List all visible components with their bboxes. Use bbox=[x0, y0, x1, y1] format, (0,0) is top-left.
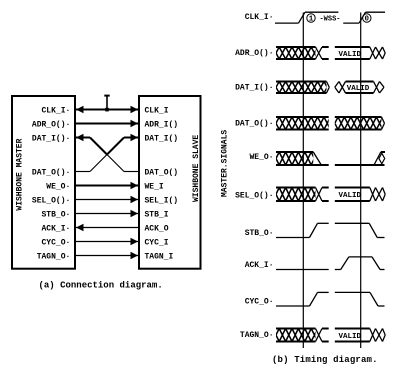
svg-text:ACK_I·: ACK_I· bbox=[41, 224, 70, 233]
wire thin half from master DAT_O stub bbox=[90, 155, 107, 172]
svg-text:DAT_O()·: DAT_O()· bbox=[32, 168, 70, 177]
wire slave DAT_O -> master DAT_I (thick with arrow) bbox=[76, 137, 90, 139]
svg-text:VALID: VALID bbox=[347, 85, 370, 93]
svg-text:SEL_I(): SEL_I() bbox=[145, 196, 179, 205]
svg-text:-WSS-: -WSS- bbox=[319, 15, 340, 23]
svg-text:ADR_O()·: ADR_O()· bbox=[32, 120, 70, 129]
svg-text:WISHBONE MASTER: WISHBONE MASTER bbox=[16, 138, 25, 210]
svg-text:ACK_I·: ACK_I· bbox=[245, 261, 274, 270]
wire WE_O -> WE_I bbox=[76, 185, 138, 187]
svg-text:VALID: VALID bbox=[339, 51, 362, 59]
WISHBONE MASTER box bbox=[12, 96, 75, 269]
svg-text:(b) Timing diagram.: (b) Timing diagram. bbox=[272, 355, 378, 365]
svg-text:CYC_I: CYC_I bbox=[145, 238, 169, 247]
svg-text:ADR_O()·: ADR_O()· bbox=[235, 49, 273, 58]
svg-text:CLK_I·: CLK_I· bbox=[245, 13, 274, 22]
svg-text:MASTER.SIGNALS: MASTER.SIGNALS bbox=[221, 130, 230, 197]
wire SEL_O -> SEL_I bbox=[76, 199, 138, 201]
svg-text:0: 0 bbox=[365, 16, 370, 24]
wire thin half from slave DAT_O stub bbox=[107, 155, 124, 172]
CLK_I waveform bbox=[275, 22, 299, 24]
svg-text:ADR_I(): ADR_I() bbox=[145, 120, 179, 129]
clock edge number 0 bbox=[363, 14, 371, 22]
ACK_I waveform bbox=[276, 269, 329, 271]
svg-text:WE_O·: WE_O· bbox=[249, 153, 273, 162]
wire CYC_O -> CYC_I bbox=[76, 241, 138, 243]
svg-text:(a) Connection diagram.: (a) Connection diagram. bbox=[39, 280, 163, 290]
syscon clock stem bbox=[106, 96, 108, 110]
wire CLK_I (bidirectional) bbox=[76, 109, 138, 111]
svg-text:SEL_O()·: SEL_O()· bbox=[235, 191, 273, 200]
svg-text:WISHBONE SLAVE: WISHBONE SLAVE bbox=[192, 135, 201, 202]
svg-text:WE_O·: WE_O· bbox=[46, 182, 70, 191]
svg-text:TAGN_O·: TAGN_O· bbox=[37, 252, 71, 261]
svg-text:DAT_O(): DAT_O() bbox=[145, 168, 179, 177]
svg-text:ACK_O: ACK_O bbox=[145, 224, 169, 233]
wire TAGN_O -> TAGN_I bbox=[76, 255, 138, 257]
svg-text:CYC_O·: CYC_O· bbox=[41, 238, 70, 247]
wire master DAT_O -> slave DAT_I (thick with arrow) bbox=[124, 137, 138, 139]
clock edge marker line 1 bbox=[302, 13, 304, 349]
svg-text:1: 1 bbox=[309, 16, 314, 24]
STB_O waveform bbox=[276, 237, 310, 239]
clock edge marker line 2 bbox=[360, 13, 362, 349]
svg-text:CLK_I: CLK_I bbox=[145, 106, 169, 115]
svg-text:STB_O·: STB_O· bbox=[41, 210, 70, 219]
svg-text:DAT_O()·: DAT_O()· bbox=[235, 119, 273, 128]
svg-text:CYC_O·: CYC_O· bbox=[245, 297, 274, 306]
clock edge number 1 bbox=[307, 14, 315, 22]
CYC_O waveform bbox=[276, 305, 310, 307]
svg-text:STB_O·: STB_O· bbox=[245, 229, 274, 238]
svg-text:DAT_I(): DAT_I() bbox=[145, 134, 179, 143]
svg-text:CLK_I·: CLK_I· bbox=[41, 106, 70, 115]
svg-text:STB_I: STB_I bbox=[145, 210, 169, 219]
wire ACK_O -> ACK_I bbox=[76, 227, 138, 229]
svg-text:TAGN_O·: TAGN_O· bbox=[240, 331, 274, 340]
svg-text:SEL_O()·: SEL_O()· bbox=[32, 196, 70, 205]
WISHBONE SLAVE box bbox=[139, 96, 201, 269]
svg-text:VALID: VALID bbox=[339, 192, 362, 200]
svg-text:WE_I: WE_I bbox=[145, 182, 164, 191]
svg-text:TAGN_I: TAGN_I bbox=[145, 252, 174, 261]
svg-text:DAT_I()·: DAT_I()· bbox=[32, 134, 70, 143]
svg-text:DAT_I()·: DAT_I()· bbox=[235, 83, 273, 92]
wire STB_O -> STB_I bbox=[76, 213, 138, 215]
svg-text:VALID: VALID bbox=[339, 333, 362, 341]
wire ADR_O -> ADR_I bbox=[76, 123, 138, 125]
